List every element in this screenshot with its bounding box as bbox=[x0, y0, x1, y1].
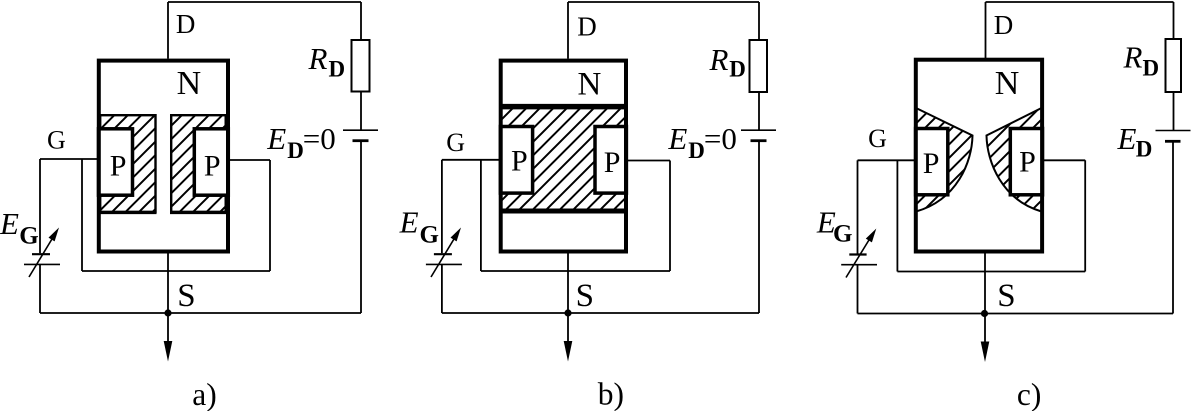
wire gate horizontal a bbox=[40, 158, 98, 160]
svg-text:D: D bbox=[994, 10, 1014, 40]
wire bottom c bbox=[858, 313, 1174, 315]
P region right b bbox=[595, 127, 626, 194]
battery ED short plate c bbox=[1165, 140, 1181, 143]
junction dot S c bbox=[981, 310, 988, 317]
svg-text:P: P bbox=[604, 146, 621, 179]
depletion wedge right c bbox=[987, 108, 1042, 212]
depletion bottom line b bbox=[502, 209, 624, 214]
svg-text:N: N bbox=[177, 65, 202, 102]
wire top c bbox=[986, 1, 1174, 3]
wire source b bbox=[567, 253, 569, 343]
wire inner-right vertical b bbox=[669, 161, 671, 272]
svg-text:R: R bbox=[308, 41, 328, 76]
svg-text:G: G bbox=[19, 223, 38, 250]
wire battery-to-bottom b bbox=[758, 141, 760, 313]
svg-text:P: P bbox=[923, 147, 940, 180]
battery EG long plate b bbox=[426, 263, 462, 265]
wire inner-left vertical a bbox=[81, 159, 83, 271]
wire gate-right horizontal b bbox=[626, 160, 670, 162]
wire bottom b bbox=[442, 312, 759, 314]
svg-text:R: R bbox=[709, 42, 729, 77]
svg-text:E: E bbox=[1117, 121, 1137, 156]
depletion region b bbox=[502, 106, 624, 212]
wire top b bbox=[568, 1, 759, 3]
svg-text:D: D bbox=[176, 9, 196, 39]
svg-text:=0: =0 bbox=[303, 121, 336, 156]
svg-text:P: P bbox=[511, 145, 528, 178]
source arrowhead a bbox=[164, 341, 173, 362]
battery ED long plate c bbox=[1156, 130, 1191, 132]
wire drain a bbox=[167, 2, 169, 59]
svg-text:G: G bbox=[420, 222, 439, 249]
wire gate-right horizontal c bbox=[1042, 159, 1085, 161]
wire battery-to-bottom a bbox=[360, 141, 362, 313]
svg-text:D: D bbox=[287, 138, 304, 163]
svg-text:S: S bbox=[997, 278, 1015, 314]
resistor RD c bbox=[1166, 39, 1182, 92]
P region left a bbox=[99, 129, 133, 195]
svg-text:D: D bbox=[1136, 137, 1153, 162]
svg-text:D: D bbox=[1143, 56, 1160, 81]
svg-text:G: G bbox=[868, 124, 887, 153]
battery ED short plate b bbox=[751, 139, 767, 142]
depletion bottom line right a bbox=[170, 211, 227, 214]
svg-text:=0: =0 bbox=[704, 121, 737, 156]
P region right a bbox=[194, 129, 228, 195]
junction dot S b bbox=[564, 309, 571, 316]
wire gate horizontal b bbox=[442, 159, 502, 161]
depletion bottom line left a bbox=[99, 211, 157, 214]
battery EG short plate c bbox=[849, 253, 866, 255]
wire drain b bbox=[567, 2, 569, 59]
wire resistor-to-battery b bbox=[758, 92, 760, 130]
transistor body b bbox=[501, 61, 626, 252]
svg-text:E: E bbox=[0, 206, 19, 241]
svg-text:P: P bbox=[110, 150, 127, 183]
wire EG-to-bottom c bbox=[857, 265, 859, 314]
svg-text:R: R bbox=[1123, 40, 1143, 75]
battery ED long plate a bbox=[343, 129, 378, 131]
wire resistor-to-battery c bbox=[1173, 92, 1175, 130]
battery EG long plate a bbox=[24, 263, 60, 265]
svg-text:S: S bbox=[177, 278, 195, 314]
wire right-top c bbox=[1173, 2, 1175, 39]
source arrowhead c bbox=[981, 342, 990, 363]
depletion region right a bbox=[171, 115, 226, 212]
battery ED short plate a bbox=[353, 139, 369, 142]
svg-text:D: D bbox=[577, 11, 597, 41]
wire battery-to-bottom c bbox=[1172, 142, 1174, 314]
wire right-top a bbox=[360, 2, 362, 40]
svg-text:a): a) bbox=[192, 377, 216, 411]
svg-text:c): c) bbox=[1017, 377, 1041, 411]
wire inner bottom a bbox=[82, 270, 270, 272]
wire source c bbox=[984, 253, 986, 344]
svg-text:G: G bbox=[47, 125, 66, 154]
N separator line b bbox=[502, 104, 624, 110]
battery EG long plate c bbox=[841, 264, 877, 266]
svg-text:P: P bbox=[1019, 146, 1036, 179]
svg-text:D: D bbox=[688, 138, 705, 163]
svg-text:N: N bbox=[995, 65, 1020, 102]
wire gate horizontal c bbox=[858, 159, 917, 161]
EG variable arrow b bbox=[431, 228, 461, 278]
wire gate-left vertical c bbox=[857, 160, 859, 253]
svg-text:G: G bbox=[446, 128, 465, 157]
wire inner bottom b bbox=[481, 270, 670, 272]
transistor body a bbox=[99, 61, 228, 252]
wire inner-right vertical c bbox=[1084, 160, 1086, 271]
svg-text:E: E bbox=[266, 121, 286, 156]
svg-text:P: P bbox=[204, 150, 221, 183]
svg-text:b): b) bbox=[598, 377, 624, 411]
wire inner-left vertical b bbox=[480, 160, 482, 271]
wire right-top b bbox=[758, 2, 760, 40]
resistor RD a bbox=[352, 40, 370, 92]
svg-text:D: D bbox=[729, 57, 746, 82]
wire EG-to-bottom b bbox=[441, 264, 443, 313]
wire top a bbox=[168, 1, 361, 3]
wire gate-right horizontal a bbox=[228, 159, 270, 161]
EG variable arrow c bbox=[846, 229, 876, 278]
source arrowhead b bbox=[564, 341, 573, 362]
depletion region left a bbox=[100, 115, 155, 212]
wire gate-left vertical a bbox=[39, 159, 41, 253]
wire EG-to-bottom a bbox=[39, 264, 41, 313]
svg-text:G: G bbox=[833, 221, 852, 248]
EG variable arrow a bbox=[29, 228, 59, 278]
P region left c bbox=[916, 129, 948, 195]
svg-text:E: E bbox=[399, 205, 419, 240]
wire inner-right vertical a bbox=[269, 160, 271, 271]
wire bottom a bbox=[40, 312, 361, 314]
depletion wedge left c bbox=[916, 108, 973, 212]
P region right c bbox=[1010, 129, 1042, 195]
battery EG short plate b bbox=[434, 253, 452, 255]
svg-text:N: N bbox=[578, 67, 602, 103]
svg-text:E: E bbox=[667, 121, 687, 156]
battery ED long plate b bbox=[741, 129, 776, 131]
wire drain c bbox=[985, 2, 987, 59]
svg-text:S: S bbox=[576, 278, 594, 314]
wire inner bottom c bbox=[897, 271, 1085, 273]
wire resistor-to-battery a bbox=[360, 92, 362, 130]
wire inner-left vertical c bbox=[896, 160, 898, 271]
junction dot S a bbox=[164, 309, 171, 316]
svg-text:D: D bbox=[329, 57, 346, 82]
wire source a bbox=[167, 253, 169, 343]
resistor RD b bbox=[750, 40, 768, 92]
transistor body c bbox=[916, 60, 1042, 252]
battery EG short plate a bbox=[32, 253, 50, 255]
wire gate-left vertical b bbox=[441, 160, 443, 253]
P region left b bbox=[500, 127, 532, 194]
